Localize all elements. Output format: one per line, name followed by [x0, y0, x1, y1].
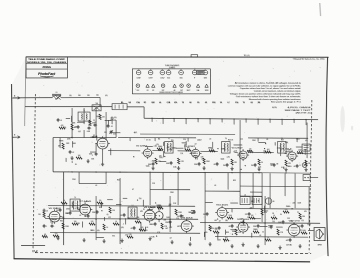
- junction node (8): [245, 165, 246, 166]
- tube chart socket V5: [179, 69, 184, 79]
- wire LR vertical x309: [308, 187, 310, 223]
- junction ground bus 9: [285, 172, 286, 173]
- value label 6.8K (43): [281, 167, 285, 169]
- svg-text:27K: 27K: [165, 226, 168, 228]
- wire B+ tap 7: [221, 118, 222, 122]
- value label .002 (41): [166, 147, 169, 149]
- wire vertical feed 3: [119, 178, 121, 198]
- wire segment (20): [285, 151, 292, 153]
- chassis dashed boundary bottom: [35, 252, 311, 255]
- capacitor C4: [95, 152, 98, 156]
- wire segment (39): [107, 199, 113, 201]
- svg-text:250: 250: [308, 163, 311, 165]
- svg-text:.002: .002: [167, 147, 170, 149]
- value label extra C26: [176, 218, 179, 220]
- wire IF interconnect 3: [200, 150, 217, 152]
- value label 100K (78): [217, 239, 222, 241]
- scan smudge right margin: [340, 106, 353, 132]
- svg-text:.05: .05: [214, 164, 216, 166]
- tube chart socket V2: [148, 69, 153, 79]
- service note line 1: [235, 82, 302, 85]
- resistor R9: [209, 148, 215, 152]
- wire segment (2): [110, 148, 112, 155]
- label UL osc: [66, 143, 70, 145]
- resistor R40 UL: [89, 120, 95, 126]
- svg-text:68: 68: [178, 226, 180, 228]
- value label 1MEG (25): [287, 166, 292, 168]
- tube chart socket V7: [203, 69, 208, 79]
- photofact logo: [38, 72, 56, 77]
- wire vertical feed 8: [227, 173, 229, 190]
- svg-text:V7: V7: [205, 69, 207, 71]
- component label .05: [266, 139, 268, 141]
- ground LR 5: [298, 244, 301, 248]
- wire segment (38): [123, 197, 127, 199]
- svg-text:B1: B1: [121, 102, 123, 104]
- resistor R12: [258, 159, 263, 165]
- capacitor C24: [215, 226, 221, 230]
- value label extra 470K: [66, 209, 70, 211]
- tube V7 6AV6: [78, 202, 92, 216]
- svg-text:TELE-TONE RADIO CORP.: TELE-TONE RADIO CORP.: [28, 58, 66, 61]
- svg-text:.1: .1: [46, 226, 47, 228]
- svg-text:1200: 1200: [229, 215, 233, 217]
- label UL k: [104, 132, 107, 134]
- resistor R11: [247, 149, 253, 153]
- label mid gap 8: [233, 180, 236, 182]
- capacitor C15: [92, 210, 98, 214]
- svg-text:47K: 47K: [61, 125, 64, 127]
- label mid gap 4: [132, 189, 134, 191]
- tube V12 rectifier: [286, 222, 301, 237]
- wire segment (1): [96, 136, 98, 141]
- fuse X mark: [56, 96, 61, 100]
- wire segment (14): [185, 141, 187, 145]
- svg-text:120: 120: [253, 229, 256, 231]
- value label .02 (32): [263, 152, 265, 154]
- svg-text:220K: 220K: [206, 161, 210, 163]
- resistor R21: [72, 221, 78, 225]
- resistor R3: [62, 143, 64, 149]
- wire LL bus 2: [45, 218, 198, 221]
- svg-text:.01: .01: [111, 126, 113, 128]
- wire label dash 4: [96, 95, 99, 97]
- service note line 8: [271, 101, 302, 104]
- svg-text:4.7K: 4.7K: [157, 232, 160, 234]
- svg-text:OSC: OSC: [137, 90, 140, 92]
- value label 560K (47): [146, 166, 151, 168]
- wire LL stub bottom: [21, 244, 45, 246]
- wire segment (60): [224, 239, 226, 242]
- value label 10 (91): [262, 231, 264, 233]
- svg-text:L4: L4: [159, 101, 161, 104]
- value label 10 (42): [241, 153, 243, 155]
- title text line 2: [27, 61, 67, 64]
- ground LL 6: [188, 242, 191, 246]
- resistor R17: [61, 200, 67, 204]
- junction LL a: [119, 218, 120, 219]
- wire segment (6): [107, 120, 109, 126]
- svg-text:.02: .02: [131, 228, 133, 230]
- ground IF row 5: [257, 167, 260, 171]
- svg-text:T5: T5: [74, 197, 76, 199]
- wire segment (47): [151, 206, 156, 208]
- value label extra 1K: [272, 213, 274, 215]
- resistor R37: [253, 229, 259, 233]
- label mid gap 1: [72, 179, 76, 181]
- wire B+ tap 5: [197, 118, 198, 122]
- component label 220K: [252, 140, 256, 142]
- value label extra 4.7K: [157, 232, 160, 234]
- tube chart socket V1: [136, 69, 141, 79]
- svg-text:.05: .05: [229, 226, 231, 228]
- value label 33K (62): [62, 217, 66, 219]
- value label 18K (3): [72, 122, 76, 124]
- ground IF row 2: [177, 166, 180, 170]
- ground LL 1: [56, 236, 59, 240]
- wire to speaker: [308, 230, 314, 232]
- oscillator coil L2: [128, 207, 137, 218]
- resistor R5: [157, 146, 163, 150]
- value label 120 (38): [159, 155, 162, 157]
- svg-text:.1: .1: [301, 218, 302, 220]
- paper tone wash: [12, 57, 328, 262]
- margin connector arrow B: [12, 135, 20, 139]
- resistor R50 LL: [38, 212, 45, 218]
- svg-text:T2: T2: [168, 138, 170, 140]
- tube chart location mark DET: [161, 84, 165, 92]
- ground LR 3: [256, 244, 259, 248]
- wire riser to B+ bus: [143, 107, 145, 119]
- wire segment (33): [147, 208, 152, 210]
- label T1: [83, 110, 85, 112]
- wire segment (9): [105, 119, 112, 121]
- ground IF row 7: [304, 168, 307, 172]
- value label 6.8K (5): [87, 131, 91, 133]
- value label 560K (46): [220, 159, 225, 161]
- svg-text:1MEG: 1MEG: [150, 224, 154, 226]
- capacitor C12: [293, 164, 298, 168]
- ground LR 4: [278, 246, 281, 250]
- wire segment (61): [251, 233, 253, 238]
- svg-text:.02: .02: [251, 102, 253, 104]
- value label 10 (6): [75, 164, 77, 166]
- value label 47K (87): [250, 207, 254, 209]
- svg-text:2.2K: 2.2K: [129, 234, 132, 236]
- label C4: [92, 155, 93, 157]
- label LL x: [168, 205, 171, 207]
- svg-text:220K: 220K: [92, 212, 95, 214]
- svg-text:.002: .002: [169, 227, 172, 229]
- wire segment (5): [70, 116, 72, 122]
- wire segment (32): [71, 201, 73, 207]
- wire vertical feed 14: [294, 173, 296, 208]
- title block divider 2: [26, 68, 67, 70]
- tube chart location mark IF1: [146, 84, 149, 92]
- svg-text:10: 10: [261, 162, 263, 164]
- svg-text:250: 250: [137, 217, 140, 219]
- label C3: [111, 126, 113, 128]
- electrolytic C30: [265, 198, 274, 204]
- svg-text:100K: 100K: [166, 163, 169, 165]
- junction ground bus 1: [71, 171, 72, 172]
- value label 12K (84): [290, 221, 294, 223]
- junction node (12): [283, 168, 284, 169]
- wire vertical feed 2: [105, 172, 107, 184]
- svg-text:300: 300: [78, 95, 81, 97]
- wire UL drop 3: [95, 108, 97, 137]
- tube V1 converter: [95, 136, 109, 150]
- value label .005 (82): [292, 202, 295, 204]
- value label 220K (35): [159, 157, 164, 159]
- svg-text:C5: C5: [93, 120, 95, 122]
- junction node (21): [143, 209, 144, 210]
- capacitor C31: [297, 224, 303, 228]
- svg-text:.05: .05: [214, 185, 216, 187]
- resistor R35: [235, 229, 241, 235]
- value label 1MEG (88): [286, 206, 291, 208]
- resistor R32: [209, 225, 214, 231]
- svg-text:40: 40: [273, 201, 275, 203]
- wire segment (28): [280, 150, 282, 156]
- terminal label 68: [189, 102, 191, 104]
- wire ground bus right: [262, 172, 311, 174]
- value label 220K (37): [169, 149, 174, 151]
- resistor R10: [231, 159, 237, 165]
- svg-text:R9: R9: [258, 102, 260, 104]
- value label 6.8K (36): [173, 167, 177, 169]
- capacitor C18: [149, 222, 156, 226]
- tube V10 35Z5: [215, 206, 229, 220]
- capacitor C8: [213, 162, 218, 166]
- capacitor C7: [194, 162, 200, 166]
- value label 56K (94): [251, 201, 255, 203]
- value label extra R28: [99, 207, 102, 209]
- wire segment (35): [189, 237, 191, 241]
- resistor R41 UL: [76, 155, 82, 159]
- ground IF row 6: [284, 168, 287, 172]
- svg-text:.047: .047: [78, 131, 81, 133]
- label I1: [299, 165, 300, 167]
- resistor R8: [203, 158, 210, 164]
- wire segment (8): [111, 132, 120, 134]
- svg-text:(NOTE 2): (NOTE 2): [296, 113, 312, 115]
- svg-text:.02: .02: [264, 153, 266, 155]
- svg-text:150: 150: [266, 211, 269, 213]
- wire V1 plate: [102, 151, 104, 162]
- svg-text:12K: 12K: [102, 117, 105, 119]
- terminal label 1K: [220, 102, 223, 104]
- copyright line: [293, 58, 326, 61]
- wire B+ bus: [144, 118, 318, 119]
- svg-text:PhotoFact: PhotoFact: [38, 72, 56, 76]
- wire UL stub c: [110, 120, 116, 138]
- value label .047 (11): [78, 131, 81, 133]
- svg-text:10K: 10K: [78, 155, 81, 157]
- wire vertical feed 9: [239, 120, 241, 196]
- value label 120 (89): [253, 229, 256, 231]
- wire B+ tap 1: [151, 118, 152, 122]
- capacitor C28 UL: [74, 125, 80, 129]
- svg-text:12SK7: 12SK7: [197, 140, 202, 142]
- component label R14 1K: [228, 139, 233, 141]
- capacitor C23: [203, 212, 209, 216]
- svg-text:.05: .05: [46, 211, 48, 213]
- label T3: [225, 138, 227, 140]
- tube chart location mark DIAL: [196, 84, 199, 92]
- value label extra 220: [247, 217, 250, 219]
- capacitor C14: [84, 214, 89, 218]
- svg-text:.01: .01: [209, 139, 211, 141]
- svg-text:27K: 27K: [245, 214, 248, 216]
- svg-text:470: 470: [304, 211, 307, 213]
- capacitor C31 UL: [93, 122, 97, 127]
- production change note: [285, 106, 312, 114]
- wire segment (17): [258, 141, 265, 143]
- wire UL stub a: [83, 130, 85, 138]
- svg-text:35Z5: 35Z5: [180, 78, 183, 80]
- wire segment (3): [72, 141, 74, 147]
- IF transformer T2: [165, 142, 174, 154]
- wire segment (40): [81, 221, 83, 227]
- note marker: [272, 107, 278, 109]
- resistor R4: [155, 158, 161, 164]
- value label 12K (73): [169, 204, 173, 206]
- terminal label L4: [159, 101, 161, 104]
- service note line 4: [254, 90, 301, 93]
- top border notch terminal: [191, 55, 198, 57]
- wire vertical feed 13: [284, 173, 286, 196]
- capacitor C11: [270, 163, 275, 167]
- value label .02 (30): [194, 143, 196, 145]
- svg-text:10: 10: [267, 237, 269, 239]
- svg-text:V10 35Z5: V10 35Z5: [216, 205, 228, 207]
- capacitor C41 edge: [43, 224, 48, 228]
- value label 68 (23): [276, 163, 278, 165]
- value label 120 (85): [301, 220, 304, 222]
- ground UL 1: [70, 156, 73, 160]
- svg-text:Controls set at maximum, volum: Controls set at maximum, volume at minim…: [254, 90, 301, 93]
- svg-text:.02: .02: [94, 122, 96, 124]
- wire L-bus horizontal: [53, 137, 116, 139]
- svg-text:All resistance values in ohms,: All resistance values in ohms, K=1000. A…: [235, 82, 302, 85]
- value label extra .05: [259, 235, 261, 237]
- svg-text:68: 68: [190, 102, 192, 104]
- ground IF row 4: [230, 167, 233, 171]
- value label 560K (56): [158, 207, 163, 209]
- wire label dash 1: [69, 95, 72, 97]
- tube chart location mark AF: [173, 84, 176, 92]
- svg-text:68: 68: [292, 209, 294, 211]
- resistor R51 edge: [42, 234, 48, 238]
- wire label dash 2: [78, 95, 81, 97]
- wire LR vertical x205: [204, 218, 206, 240]
- value label .047 (18): [200, 156, 203, 158]
- capacitor C29 UL: [69, 150, 75, 154]
- terminal label 22K: [151, 102, 155, 104]
- svg-text:220K: 220K: [66, 226, 70, 228]
- svg-text:.01: .01: [85, 216, 87, 218]
- resistor R7: [185, 147, 191, 151]
- wire B+ tap 11: [269, 119, 270, 123]
- ground LL 2: [82, 238, 85, 242]
- svg-text:L1: L1: [56, 92, 58, 94]
- value label 1MEG (22): [208, 148, 213, 150]
- label LL y: [60, 221, 63, 223]
- svg-text:120: 120: [203, 214, 206, 216]
- wire LL bus 1: [48, 205, 195, 208]
- svg-text:.01: .01: [95, 185, 97, 187]
- svg-text:R30: R30: [60, 221, 63, 223]
- wire vertical feed 12: [269, 173, 271, 208]
- tube chart socket V3: [160, 69, 165, 79]
- wire shelf right: [248, 137, 308, 139]
- svg-text:T3: T3: [243, 102, 245, 104]
- svg-text:.02: .02: [79, 215, 81, 217]
- wire segment (23): [175, 147, 183, 149]
- svg-text:C35: C35: [287, 218, 290, 220]
- wire segment (26): [233, 144, 242, 146]
- line transformer T0: [92, 102, 101, 111]
- wire IF interconnect 4: [234, 152, 239, 153]
- svg-text:470: 470: [105, 95, 108, 97]
- junction LR a: [264, 222, 265, 223]
- tube chart socket V6: [192, 69, 197, 79]
- svg-text:120: 120: [114, 117, 117, 119]
- terminal label 470: [174, 101, 177, 104]
- value label 1MEG (44): [221, 148, 226, 150]
- wire LR bus 1: [225, 208, 310, 211]
- label R3: [58, 146, 61, 148]
- junction LR b: [242, 222, 243, 223]
- label V9: [181, 218, 193, 220]
- svg-text:27K: 27K: [55, 233, 58, 235]
- value label .05 (70): [106, 214, 108, 216]
- svg-text:1K: 1K: [272, 213, 274, 215]
- svg-text:390: 390: [50, 219, 53, 221]
- terminal label C9: [197, 102, 199, 104]
- bottom margin arrow: [34, 250, 38, 253]
- svg-text:.05: .05: [205, 102, 207, 104]
- wire UL stub d: [90, 143, 96, 152]
- terminal label C14: [235, 101, 238, 104]
- svg-text:4.7K: 4.7K: [298, 226, 301, 228]
- capacitor C20: [177, 214, 183, 218]
- junction node (7): [155, 202, 156, 203]
- resistor R24: [113, 221, 119, 225]
- capacitor C25: [228, 224, 233, 228]
- svg-text:10: 10: [241, 153, 243, 155]
- svg-text:470: 470: [305, 140, 308, 142]
- loop antenna L1: [52, 94, 61, 99]
- svg-text:2C942a: 2C942a: [43, 66, 52, 69]
- svg-text:V3 12SK7: V3 12SK7: [184, 146, 195, 148]
- wire vertical feed 10: [252, 173, 254, 208]
- value label 27K (29): [211, 150, 215, 152]
- svg-text:.01: .01: [294, 166, 296, 168]
- IF transformer T3: [222, 142, 231, 154]
- value label 250 (74): [137, 217, 140, 219]
- resistor R20: [62, 223, 69, 229]
- capacitor C32 UL: [57, 118, 63, 122]
- wire shelf tick 5: [296, 138, 298, 142]
- ground LL 3: [120, 239, 123, 243]
- label volume control: [112, 236, 115, 238]
- svg-text:150: 150: [177, 216, 180, 218]
- wire segment (45): [125, 218, 127, 224]
- wire L-bus vertical: [52, 138, 54, 172]
- tube V4 12SQ7: [237, 149, 249, 161]
